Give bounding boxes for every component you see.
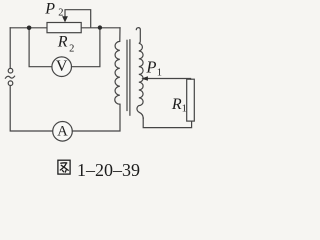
wire lower left vertical [10, 86, 53, 131]
transformer core line 2 [129, 40, 131, 115]
terminal lower [8, 81, 13, 86]
wire secondary bottom to R1 [143, 118, 191, 128]
svg-text:A: A [57, 123, 68, 139]
svg-text:R: R [57, 34, 68, 51]
wire P1 slider to R1 top [147, 78, 190, 81]
ammeter A body [53, 122, 73, 142]
potentiometer wiper loop wire [65, 10, 91, 28]
node junction dot left [27, 26, 32, 31]
slider arrowhead P1 [141, 76, 148, 81]
transformer core line 1 [126, 40, 128, 110]
wire top main [10, 27, 120, 29]
wire left vertical to AC source [9, 28, 11, 69]
svg-text:2: 2 [69, 44, 74, 55]
wire ammeter to transformer primary bottom [72, 104, 120, 131]
transformer primary winding [115, 28, 120, 104]
svg-text:1: 1 [182, 104, 187, 115]
svg-text:P: P [145, 57, 156, 76]
svg-text:1–20–39: 1–20–39 [77, 160, 140, 179]
terminal upper [8, 68, 13, 73]
svg-text:V: V [56, 58, 68, 75]
potentiometer R2 body [47, 23, 81, 33]
AC source tilde [5, 76, 14, 78]
transformer secondary winding with top hook [136, 28, 143, 119]
svg-text:2: 2 [58, 8, 63, 19]
resistor R1 body [187, 79, 195, 121]
voltmeter V body [52, 57, 72, 77]
svg-text:R: R [171, 96, 182, 113]
svg-text:P: P [44, 0, 55, 17]
wiper arrowhead P2 [62, 16, 68, 22]
svg-text:1: 1 [157, 67, 162, 78]
wire voltmeter branch left [29, 28, 52, 67]
node junction dot right [98, 25, 102, 29]
wire voltmeter branch right [72, 28, 100, 67]
caption hanzi TU (drawn) [58, 160, 70, 174]
